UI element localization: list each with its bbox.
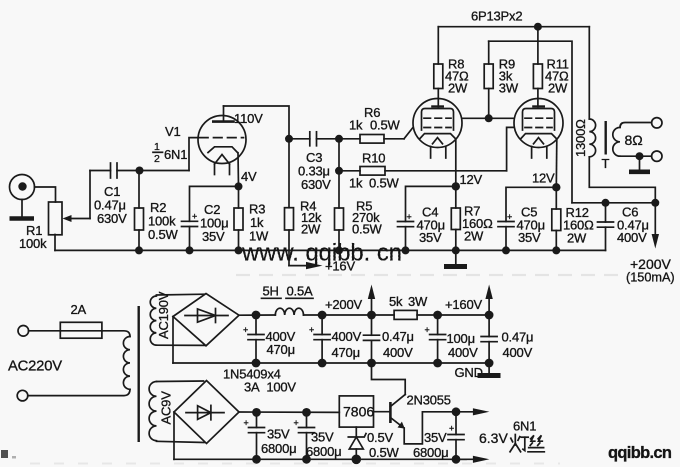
+200V arrow bbox=[325, 285, 375, 316]
node (C5 bottom) bbox=[502, 246, 510, 254]
R8 label bbox=[445, 57, 469, 96]
+200V arrow (B+ input) bbox=[626, 203, 675, 285]
choke L1 5H bbox=[275, 308, 394, 315]
R10 label bbox=[349, 151, 399, 191]
svg-text:110V: 110V bbox=[234, 111, 263, 126]
node (R2 bottom) bbox=[135, 246, 143, 254]
resistor R9 bbox=[484, 41, 493, 118]
filament ground rail bbox=[174, 458, 466, 460]
wire jack to pot bbox=[35, 187, 56, 202]
node (cap2 top) bbox=[318, 311, 327, 320]
screen rail bbox=[489, 41, 572, 203]
svg-text:R10: R10 bbox=[362, 151, 385, 166]
wire tube1 screen to node E bbox=[462, 117, 489, 119]
capacitor 6800u/35V #2 bbox=[294, 412, 315, 459]
speaker terminal (top) bbox=[652, 118, 662, 128]
svg-text:400V: 400V bbox=[448, 345, 478, 360]
capacitor 100u/400V bbox=[425, 315, 446, 363]
node (top rail center) bbox=[534, 23, 542, 31]
AC9V winding bbox=[149, 381, 204, 443]
wire tube2 cathode down bbox=[555, 139, 558, 187]
resistor R2 bbox=[135, 171, 144, 251]
C6 label bbox=[617, 205, 649, 246]
svg-text:12V: 12V bbox=[460, 172, 483, 187]
svg-text:630V: 630V bbox=[301, 177, 331, 192]
R12 label bbox=[563, 205, 594, 246]
AC190V label (rotated) bbox=[156, 291, 171, 339]
AC terminal (top) bbox=[18, 326, 29, 337]
svg-text:100μ: 100μ bbox=[447, 331, 475, 346]
svg-text:2N3055: 2N3055 bbox=[407, 393, 451, 408]
SECTION: watermarks bbox=[1, 240, 672, 464]
capacitor C4 bbox=[398, 212, 414, 250]
resistor R6 bbox=[339, 127, 413, 143]
scan artifact (faint streak) bbox=[236, 274, 636, 276]
wire 4V node to C2 bbox=[190, 186, 239, 221]
svg-text:+: + bbox=[244, 418, 249, 428]
svg-text:400V: 400V bbox=[383, 345, 413, 360]
svg-text:qqibb.cn: qqibb.cn bbox=[608, 444, 672, 462]
wire V1 cathode down bbox=[237, 153, 240, 187]
1300 ohm label (rotated) bbox=[573, 119, 588, 157]
svg-text:0.5W: 0.5W bbox=[148, 227, 178, 242]
svg-text:V1: V1 bbox=[165, 124, 181, 139]
svg-text:2W: 2W bbox=[548, 81, 568, 96]
svg-text:2W: 2W bbox=[567, 231, 587, 246]
svg-text:T: T bbox=[602, 156, 610, 171]
5k 3W label bbox=[389, 294, 428, 309]
resistor R7 bbox=[451, 186, 460, 250]
ground (input jack) bbox=[10, 200, 35, 219]
SECTION: main amplifier bbox=[10, 9, 675, 285]
scan artifact (bottom left) bbox=[1, 450, 16, 459]
node A (C1/R2/grid junction) bbox=[136, 167, 144, 175]
svg-text:4V: 4V bbox=[241, 169, 257, 184]
6P13Px2 label bbox=[471, 9, 522, 24]
wire pot bottom to rail bbox=[54, 235, 56, 251]
svg-text:100k: 100k bbox=[19, 236, 47, 251]
node (R12 bottom) bbox=[552, 246, 560, 254]
speaker terminal (bottom) bbox=[652, 151, 662, 161]
potentiometer R1 bbox=[49, 202, 91, 235]
svg-text:www. qqibb. cn: www. qqibb. cn bbox=[241, 240, 402, 267]
resistor R10 bbox=[339, 127, 514, 175]
svg-text:6800μ: 6800μ bbox=[261, 441, 296, 456]
R4 label bbox=[300, 199, 322, 237]
node (GND) bbox=[485, 359, 494, 368]
wire pot wiper riser bbox=[89, 171, 91, 219]
node (secondary bottom) bbox=[636, 152, 644, 160]
node (C4 bottom) bbox=[402, 246, 410, 254]
svg-text:2A: 2A bbox=[71, 302, 87, 317]
capacitor 470u/400V #2 bbox=[309, 315, 330, 363]
node D (R10/R5) bbox=[335, 167, 343, 175]
svg-text:5k: 5k bbox=[389, 294, 403, 309]
bottom rail (amp ground bus) bbox=[55, 249, 606, 251]
svg-text:6.3V: 6.3V bbox=[479, 430, 508, 446]
wire node E to tube2 screen bbox=[489, 117, 514, 119]
svg-text:1300Ω: 1300Ω bbox=[573, 119, 588, 157]
400V 470u label #2 bbox=[332, 329, 362, 360]
svg-text:3A 100V: 3A 100V bbox=[244, 380, 296, 395]
capacitor 0.47u/400V #2 bbox=[481, 315, 497, 363]
capacitor C2 bbox=[182, 212, 198, 251]
wire node to C4 bbox=[406, 186, 456, 221]
svg-text:35V: 35V bbox=[311, 430, 334, 445]
svg-text:+160V: +160V bbox=[445, 297, 482, 312]
wire emitter to output bbox=[404, 412, 456, 444]
svg-text:0.47μ: 0.47μ bbox=[502, 330, 534, 345]
R5 label bbox=[352, 199, 382, 237]
tube U2 (6P13P #2) bbox=[514, 99, 563, 159]
svg-text:0.5W: 0.5W bbox=[352, 222, 382, 237]
node (12V cathode 2) bbox=[552, 183, 560, 191]
400V 470u label bbox=[266, 329, 296, 357]
AC9V label (rotated) bbox=[159, 391, 174, 425]
tube V1 (1/2 6N1 triode) bbox=[198, 106, 246, 175]
svg-text:6P13Px2: 6P13Px2 bbox=[471, 9, 522, 24]
SECTION: power supply bbox=[8, 284, 544, 465]
svg-text:5H: 5H bbox=[263, 284, 279, 299]
svg-text:12V: 12V bbox=[532, 171, 555, 186]
svg-text:35V: 35V bbox=[202, 229, 225, 244]
output transformer T primary bbox=[589, 27, 655, 203]
wire tube1 cathode down bbox=[455, 139, 457, 186]
svg-text:35V: 35V bbox=[424, 430, 447, 445]
node (R7 bottom) bbox=[452, 246, 460, 254]
transformer core (mains) bbox=[137, 306, 139, 442]
resistor R12 bbox=[552, 187, 561, 250]
8 ohm label bbox=[625, 132, 643, 148]
35V 6800u label #2 bbox=[306, 430, 341, 460]
node (R5 bottom) bbox=[335, 246, 343, 254]
svg-text:470μ: 470μ bbox=[267, 342, 295, 357]
+160V arrow bbox=[445, 285, 493, 316]
6.3V label bbox=[479, 430, 508, 446]
resistor R8 bbox=[434, 27, 443, 107]
C1 label bbox=[94, 184, 127, 226]
regulator U3 7806 bbox=[339, 396, 374, 427]
node (100u bottom) bbox=[433, 359, 442, 368]
svg-text:0.47μ: 0.47μ bbox=[382, 329, 414, 344]
svg-text:630V: 630V bbox=[97, 211, 127, 226]
6N1 label bbox=[513, 419, 536, 434]
svg-text:8Ω: 8Ω bbox=[625, 132, 643, 148]
watermark www.qqibb.cn (center) bbox=[241, 240, 402, 267]
4V label bbox=[241, 169, 257, 184]
node (cap2 bottom) bbox=[318, 359, 327, 368]
supply ground rail bbox=[173, 362, 489, 364]
svg-text:400V: 400V bbox=[617, 230, 647, 245]
node (6800u #2 top) bbox=[302, 408, 311, 417]
svg-text:+200V: +200V bbox=[325, 297, 362, 312]
svg-text:0.5W: 0.5W bbox=[369, 176, 399, 191]
capacitor C6 bbox=[598, 203, 614, 251]
svg-text:0.5W: 0.5W bbox=[370, 118, 400, 133]
tube U1 (6P13P #1) bbox=[413, 99, 462, 159]
svg-text:+: + bbox=[243, 325, 248, 335]
svg-text:35V: 35V bbox=[419, 230, 442, 245]
node (100u top) bbox=[433, 311, 442, 320]
svg-text:6N1: 6N1 bbox=[513, 419, 536, 434]
svg-text:0.5A: 0.5A bbox=[287, 284, 313, 299]
capacitor 0.47u/400V #1 bbox=[364, 315, 380, 363]
transformer core bbox=[605, 121, 607, 155]
svg-text:(150mA): (150mA) bbox=[626, 271, 675, 285]
wire bridge2 plus out bbox=[239, 411, 339, 413]
node (C2 bottom) bbox=[186, 246, 194, 254]
svg-text:1k: 1k bbox=[349, 176, 363, 191]
svg-text:6800μ: 6800μ bbox=[413, 445, 448, 460]
svg-text:3W: 3W bbox=[499, 81, 519, 96]
node (C6 top) bbox=[602, 199, 610, 207]
capacitor 6800u/35V #1 bbox=[244, 412, 265, 459]
filament label (Chinese: deng si) bbox=[510, 435, 544, 452]
top rail (plate supply) bbox=[438, 26, 589, 28]
svg-text:400V: 400V bbox=[503, 345, 533, 360]
svg-text:+: + bbox=[309, 325, 314, 335]
wire V1 plate to node B bbox=[224, 106, 290, 139]
node (+160V) bbox=[485, 311, 494, 320]
mains transformer primary bbox=[28, 331, 130, 396]
diode D9 (under 7806) bbox=[348, 427, 366, 459]
scan artifact (bottom faint streak) bbox=[30, 463, 560, 465]
+16V arrow bbox=[289, 259, 355, 274]
C3 label bbox=[298, 150, 331, 192]
T label bbox=[602, 156, 610, 171]
node (6.3V out bottom) bbox=[452, 455, 461, 464]
12V label (tube1) bbox=[460, 172, 483, 187]
R9 label bbox=[499, 57, 519, 96]
R7 label bbox=[462, 204, 493, 244]
C4 label bbox=[417, 205, 445, 246]
svg-text:+: + bbox=[449, 424, 454, 434]
5H 0.5A label bbox=[262, 284, 314, 299]
svg-text:3W: 3W bbox=[408, 294, 428, 309]
node (cap1 bottom) bbox=[252, 359, 261, 368]
node (6800u #1 top) bbox=[252, 408, 261, 417]
0.47u 400V label #2 bbox=[502, 330, 534, 361]
transistor Q1 2N3055 bbox=[374, 395, 406, 429]
0.47u 400V label bbox=[382, 329, 414, 360]
svg-text:+: + bbox=[407, 212, 412, 222]
R2 label bbox=[148, 200, 178, 242]
node (+200V rail bottom) bbox=[367, 359, 376, 368]
2N3055 label bbox=[407, 393, 451, 408]
wire node A to grid riser bbox=[140, 170, 190, 172]
svg-text:35V: 35V bbox=[518, 230, 541, 245]
wire bridge2 minus to rail bbox=[173, 412, 175, 459]
0.5V 0.5W label bbox=[367, 430, 399, 460]
wire collector to supply gnd rail bbox=[372, 363, 406, 395]
wire node to C5 bbox=[506, 187, 556, 221]
svg-text:2W: 2W bbox=[301, 222, 321, 237]
svg-text:+: + bbox=[425, 325, 430, 335]
100u 400V label bbox=[447, 331, 479, 360]
resistor 5k 3W bbox=[394, 310, 489, 319]
node (+200V tap) bbox=[367, 311, 376, 320]
watermark qqibb.cn (blue, bottom right) bbox=[608, 444, 672, 462]
input jack J1 bbox=[10, 175, 35, 200]
wire bridge1 minus to rail bbox=[172, 317, 174, 364]
arrow 6.3V out (bottom) bbox=[456, 456, 489, 463]
capacitor C5 bbox=[498, 212, 514, 250]
capacitor 470u/400V #1 bbox=[243, 315, 264, 363]
svg-text:AC220V: AC220V bbox=[8, 359, 62, 375]
C5 label bbox=[517, 205, 545, 246]
35V 6800u label #1 bbox=[261, 427, 296, 457]
svg-text:1k: 1k bbox=[349, 118, 363, 133]
35V 6800u label #3 bbox=[413, 430, 448, 460]
svg-text:400V: 400V bbox=[332, 329, 362, 344]
node (12V cathode 1) bbox=[452, 182, 460, 190]
svg-text:2: 2 bbox=[154, 153, 160, 165]
R6 label bbox=[349, 105, 400, 133]
node (6800u #2 bottom) bbox=[302, 455, 311, 464]
fuse F1 bbox=[29, 322, 102, 338]
node (6800u #1 bottom) bbox=[252, 455, 261, 464]
svg-text:2W: 2W bbox=[464, 229, 484, 244]
1/2 6N1 label bbox=[153, 141, 187, 165]
node (6.3V out top) bbox=[452, 407, 461, 416]
svg-text:0.5V: 0.5V bbox=[367, 430, 393, 445]
ground (supply) bbox=[478, 363, 501, 376]
wire node C down bbox=[338, 139, 340, 171]
svg-text:+: + bbox=[192, 212, 197, 222]
1N5409x4 label bbox=[223, 367, 296, 395]
svg-text:6N1: 6N1 bbox=[164, 147, 187, 162]
resistor R4 bbox=[285, 139, 294, 266]
svg-text:0.5W: 0.5W bbox=[369, 445, 399, 460]
AC220V label bbox=[8, 359, 62, 375]
capacitor C3 bbox=[289, 132, 339, 146]
bridge rectifier D1-D4 bbox=[173, 294, 239, 346]
wire grid riser to V1 bbox=[189, 138, 198, 171]
node E (screens/R9) bbox=[485, 114, 493, 122]
110V label bbox=[234, 111, 263, 126]
resistor R3 bbox=[234, 186, 243, 250]
node (4V cathode junction) bbox=[235, 182, 243, 190]
svg-text:+: + bbox=[294, 418, 299, 428]
GND label bbox=[455, 365, 483, 380]
svg-text:470μ: 470μ bbox=[332, 345, 360, 360]
2A label bbox=[71, 302, 87, 317]
AC terminal (bottom) bbox=[17, 390, 28, 401]
svg-text:35V: 35V bbox=[267, 427, 290, 442]
node C (C3/R6/R10) bbox=[335, 135, 343, 143]
capacitor C1 bbox=[90, 163, 139, 178]
R1 label bbox=[19, 223, 47, 251]
capacitor 6800u/35V #3 bbox=[448, 412, 464, 460]
R11 label bbox=[545, 57, 569, 96]
svg-text:7806: 7806 bbox=[343, 404, 374, 420]
R3 label bbox=[249, 202, 269, 244]
node (diode bottom) bbox=[352, 455, 362, 465]
svg-text:AC190V: AC190V bbox=[156, 291, 171, 339]
svg-text:2W: 2W bbox=[448, 81, 468, 96]
C2 label bbox=[200, 202, 228, 244]
bridge rectifier D5-D8 bbox=[174, 381, 239, 444]
svg-text:6800μ: 6800μ bbox=[306, 444, 341, 459]
svg-text:+: + bbox=[507, 212, 512, 222]
node (choke in) bbox=[252, 311, 261, 320]
node (B+ corner) bbox=[651, 199, 659, 207]
wire B+ feed line bbox=[572, 202, 655, 204]
wire bridge1 plus out bbox=[239, 314, 275, 316]
resistor R5 bbox=[335, 171, 344, 251]
ground (amp) bbox=[444, 250, 467, 266]
arrow 6.3V out (top) bbox=[456, 408, 489, 415]
svg-text:AC9V: AC9V bbox=[159, 391, 174, 425]
output transformer secondary bbox=[613, 123, 652, 157]
ground (speaker) bbox=[629, 156, 650, 172]
V1 label bbox=[165, 124, 181, 139]
resistor R11 bbox=[533, 27, 542, 107]
node (R3 bottom) bbox=[235, 246, 243, 254]
12V label (tube2) bbox=[532, 171, 555, 186]
AC190V winding bbox=[150, 294, 204, 345]
node B (plate/C3/R4) bbox=[285, 135, 293, 143]
svg-text:1: 1 bbox=[154, 141, 160, 153]
